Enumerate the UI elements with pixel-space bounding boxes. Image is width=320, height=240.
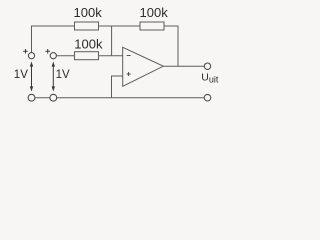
terminal output Uuit	[204, 63, 210, 69]
op-amp non-inverting input plus sign	[127, 72, 131, 76]
wire: R2 right side down to output node	[164, 26, 178, 66]
svg-text:Uuit: Uuit	[201, 72, 219, 85]
terminal source2 top	[50, 53, 56, 59]
wire: bottom rail	[35, 97, 204, 99]
svg-text:100k: 100k	[74, 5, 103, 20]
resistor R1 100k	[75, 22, 99, 30]
terminal source2 bottom	[50, 94, 57, 101]
wire: source1 top terminal up and across to R1	[32, 26, 75, 53]
op-amp inverting input minus sign	[127, 55, 131, 57]
wire: R1 to R2	[99, 25, 141, 27]
wire: non-inverting input left and down to bottom rail	[112, 76, 123, 98]
wire: source2 top terminal to R3	[56, 55, 74, 57]
wire: R3 to op-amp inverting input	[99, 55, 123, 57]
svg-text:100k: 100k	[140, 5, 169, 20]
voltage arrow source1 double headed	[30, 62, 33, 92]
plus polarity mark source2	[45, 49, 50, 54]
resistor R2 100k feedback	[140, 22, 164, 30]
wire: op-amp output to Uuit terminal	[163, 65, 204, 67]
op-amp U1 triangle	[123, 47, 164, 86]
terminal output bottom	[204, 94, 211, 101]
wire: junction vertical down to inverting node	[111, 26, 113, 56]
terminal source1 top	[28, 53, 34, 59]
svg-text:1V: 1V	[14, 69, 28, 81]
resistor R3 100k	[75, 52, 99, 60]
plus polarity mark source1	[23, 49, 28, 54]
svg-text:100k: 100k	[74, 36, 103, 51]
svg-text:1V: 1V	[56, 69, 70, 81]
terminal source1 bottom	[28, 94, 35, 101]
voltage arrow source2 double headed	[52, 62, 55, 92]
